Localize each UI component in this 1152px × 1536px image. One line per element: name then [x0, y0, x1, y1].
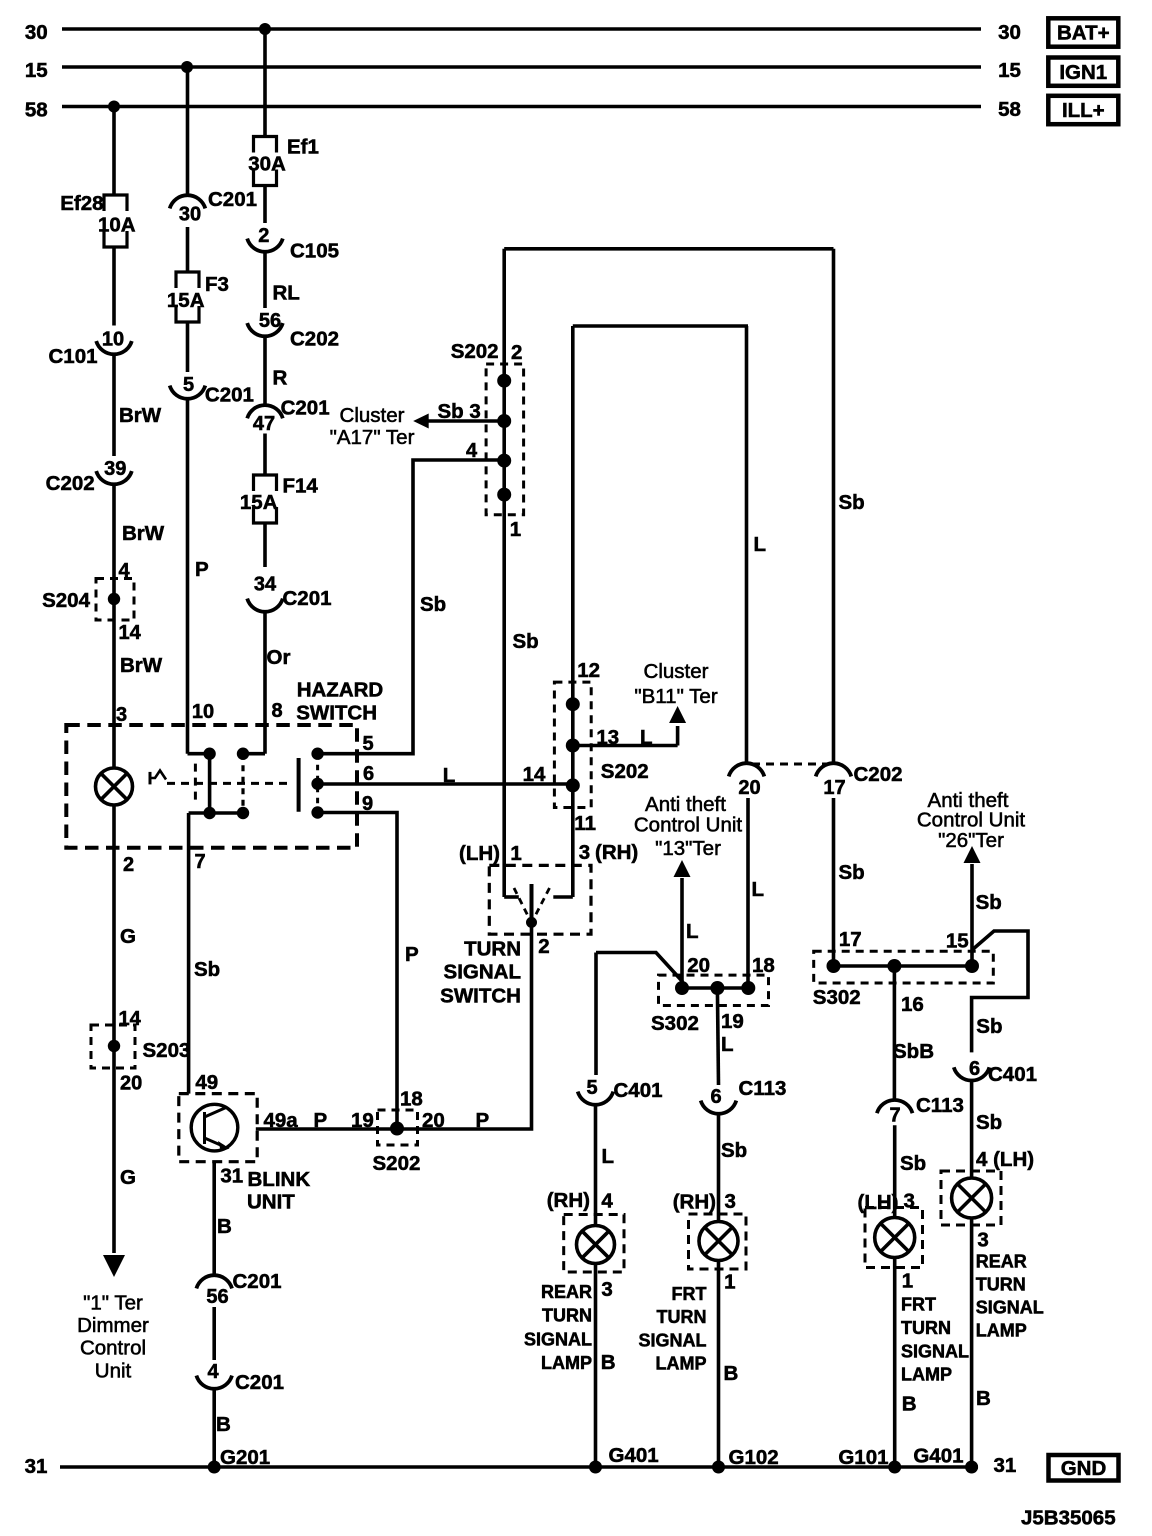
svg-text:BAT+: BAT+ — [1057, 22, 1110, 45]
svg-text:LAMP: LAMP — [541, 1353, 592, 1373]
svg-text:REAR: REAR — [541, 1282, 592, 1302]
svg-text:Sb: Sb — [976, 1111, 1002, 1134]
svg-text:G201: G201 — [220, 1446, 270, 1469]
svg-text:2: 2 — [258, 225, 269, 247]
svg-text:ILL+: ILL+ — [1062, 99, 1105, 122]
svg-text:Sb: Sb — [976, 1015, 1002, 1038]
svg-text:Or: Or — [267, 646, 291, 669]
svg-text:3: 3 — [601, 1278, 612, 1301]
svg-text:15A: 15A — [240, 491, 278, 514]
svg-text:SIGNAL: SIGNAL — [976, 1298, 1044, 1318]
svg-text:Unit: Unit — [95, 1359, 132, 1382]
svg-text:C113: C113 — [916, 1094, 964, 1117]
svg-text:FRT: FRT — [901, 1295, 936, 1315]
svg-text:31: 31 — [25, 1455, 48, 1478]
svg-text:Control Unit: Control Unit — [634, 814, 743, 837]
svg-text:G: G — [120, 1166, 136, 1189]
svg-text:Cluster: Cluster — [644, 660, 709, 683]
svg-text:B: B — [902, 1393, 917, 1416]
svg-text:Sb: Sb — [438, 400, 464, 423]
svg-text:IGN1: IGN1 — [1059, 61, 1107, 84]
svg-text:(LH): (LH) — [459, 842, 500, 865]
svg-text:GND: GND — [1061, 1457, 1107, 1480]
svg-text:18: 18 — [400, 1088, 423, 1111]
svg-text:Sb: Sb — [513, 630, 539, 653]
svg-text:1: 1 — [510, 842, 521, 865]
svg-text:Sb: Sb — [194, 958, 220, 981]
svg-text:C201: C201 — [281, 397, 330, 420]
svg-text:1: 1 — [902, 1270, 913, 1293]
svg-text:G401: G401 — [609, 1444, 659, 1467]
svg-text:Sb: Sb — [721, 1139, 747, 1162]
svg-text:31: 31 — [994, 1454, 1017, 1477]
svg-text:TURN: TURN — [901, 1318, 951, 1338]
svg-text:L: L — [602, 1145, 615, 1168]
svg-text:"A17" Ter: "A17" Ter — [330, 426, 415, 449]
svg-text:C202: C202 — [854, 763, 903, 786]
svg-text:58: 58 — [998, 98, 1021, 121]
svg-text:HAZARD: HAZARD — [297, 679, 384, 702]
svg-text:(RH): (RH) — [595, 841, 638, 864]
svg-text:Sb: Sb — [976, 891, 1002, 914]
svg-text:J5B35065: J5B35065 — [1021, 1507, 1116, 1530]
svg-text:9: 9 — [362, 793, 373, 815]
svg-text:"B11" Ter: "B11" Ter — [634, 685, 717, 708]
svg-text:10: 10 — [192, 701, 214, 723]
svg-text:14: 14 — [119, 1008, 142, 1030]
svg-text:2: 2 — [123, 854, 134, 876]
svg-text:C201: C201 — [208, 188, 257, 211]
svg-text:F14: F14 — [283, 475, 319, 498]
svg-text:30: 30 — [998, 21, 1021, 44]
svg-text:FRT: FRT — [672, 1284, 707, 1304]
svg-text:SWITCH: SWITCH — [440, 985, 521, 1008]
svg-text:G: G — [120, 925, 136, 948]
svg-text:S203: S203 — [143, 1039, 191, 1062]
svg-text:LAMP: LAMP — [901, 1365, 952, 1385]
svg-text:Dimmer: Dimmer — [77, 1314, 149, 1337]
svg-text:Sb: Sb — [900, 1152, 926, 1175]
svg-text:F3: F3 — [205, 273, 229, 296]
svg-text:4: 4 — [466, 440, 478, 462]
svg-text:G401: G401 — [913, 1445, 963, 1468]
svg-text:6: 6 — [969, 1058, 980, 1080]
svg-text:C201: C201 — [233, 1270, 282, 1293]
svg-text:L: L — [686, 920, 699, 943]
svg-text:L: L — [443, 764, 456, 787]
svg-text:4 (LH): 4 (LH) — [976, 1148, 1034, 1171]
svg-text:Ef1: Ef1 — [287, 136, 319, 159]
svg-text:1: 1 — [510, 518, 521, 541]
svg-text:(RH): (RH) — [673, 1191, 716, 1214]
svg-text:20: 20 — [687, 954, 710, 977]
svg-text:5: 5 — [362, 733, 373, 755]
svg-text:SWITCH: SWITCH — [296, 702, 377, 725]
svg-text:14: 14 — [119, 622, 142, 644]
svg-text:10: 10 — [102, 329, 124, 351]
svg-text:P: P — [314, 1109, 328, 1132]
svg-text:"1" Ter: "1" Ter — [83, 1292, 143, 1315]
svg-text:15: 15 — [25, 59, 48, 82]
svg-text:TURN: TURN — [464, 938, 521, 961]
svg-text:39: 39 — [104, 458, 126, 480]
svg-text:B: B — [217, 1215, 232, 1238]
svg-text:C401: C401 — [988, 1063, 1037, 1086]
svg-text:C101: C101 — [48, 345, 97, 368]
svg-text:58: 58 — [25, 99, 48, 122]
svg-text:REAR: REAR — [976, 1252, 1027, 1272]
svg-text:B: B — [724, 1362, 739, 1385]
svg-text:17: 17 — [823, 777, 845, 799]
svg-text:P: P — [195, 558, 209, 581]
svg-text:P: P — [476, 1109, 490, 1132]
svg-text:20: 20 — [120, 1073, 142, 1095]
svg-text:BLINK: BLINK — [248, 1168, 311, 1191]
svg-text:17: 17 — [839, 928, 862, 951]
svg-text:TURN: TURN — [542, 1306, 592, 1326]
svg-text:BrW: BrW — [122, 522, 165, 545]
svg-text:1: 1 — [724, 1271, 735, 1294]
svg-text:3: 3 — [904, 1190, 915, 1213]
svg-text:15A: 15A — [167, 289, 205, 312]
svg-text:P: P — [405, 943, 419, 966]
svg-text:47: 47 — [253, 413, 275, 435]
svg-text:C105: C105 — [290, 240, 339, 263]
svg-text:BrW: BrW — [120, 654, 163, 677]
svg-text:C201: C201 — [235, 1371, 284, 1394]
svg-text:15: 15 — [998, 59, 1021, 82]
svg-text:C201: C201 — [205, 384, 254, 407]
svg-text:8: 8 — [271, 700, 282, 722]
svg-text:6: 6 — [710, 1086, 721, 1108]
svg-text:Ef28: Ef28 — [60, 192, 103, 215]
svg-text:20: 20 — [738, 777, 760, 799]
svg-text:LAMP: LAMP — [976, 1321, 1027, 1341]
svg-text:TURN: TURN — [976, 1275, 1026, 1295]
svg-text:C201: C201 — [283, 587, 332, 610]
svg-text:Cluster: Cluster — [340, 404, 405, 427]
svg-text:15: 15 — [946, 930, 969, 953]
svg-text:SIGNAL: SIGNAL — [901, 1341, 969, 1361]
svg-text:C202: C202 — [46, 472, 95, 495]
svg-text:BrW: BrW — [119, 404, 162, 427]
svg-text:(RH): (RH) — [547, 1189, 590, 1212]
svg-text:56: 56 — [206, 1286, 228, 1308]
svg-text:S204: S204 — [42, 589, 90, 612]
svg-text:L: L — [754, 533, 767, 556]
svg-text:B: B — [216, 1413, 231, 1436]
svg-text:B: B — [601, 1351, 616, 1374]
svg-text:11: 11 — [574, 812, 596, 835]
svg-text:R: R — [273, 367, 288, 390]
svg-text:12: 12 — [577, 659, 600, 682]
svg-text:S302: S302 — [813, 986, 861, 1009]
svg-text:13: 13 — [596, 726, 619, 749]
svg-text:3: 3 — [977, 1229, 988, 1252]
svg-text:RL: RL — [273, 282, 300, 305]
svg-text:SbB: SbB — [893, 1040, 934, 1063]
svg-text:S202: S202 — [601, 760, 649, 783]
svg-text:B: B — [976, 1387, 991, 1410]
svg-text:3: 3 — [116, 704, 127, 726]
svg-text:2: 2 — [538, 935, 549, 958]
svg-text:31: 31 — [220, 1165, 243, 1188]
svg-text:4: 4 — [601, 1190, 613, 1213]
svg-text:30A: 30A — [248, 153, 286, 176]
svg-text:S202: S202 — [373, 1152, 421, 1175]
svg-text:30: 30 — [179, 204, 201, 226]
svg-text:18: 18 — [752, 954, 775, 977]
svg-text:49a: 49a — [264, 1109, 299, 1132]
svg-text:19: 19 — [721, 1010, 744, 1033]
svg-text:G102: G102 — [729, 1446, 779, 1469]
svg-text:UNIT: UNIT — [247, 1191, 295, 1214]
svg-text:16: 16 — [901, 993, 924, 1016]
svg-text:Sb: Sb — [839, 491, 865, 514]
svg-text:L: L — [640, 726, 653, 749]
svg-text:SIGNAL: SIGNAL — [444, 961, 521, 984]
svg-text:4: 4 — [207, 1361, 219, 1383]
svg-text:34: 34 — [254, 574, 277, 596]
svg-text:49: 49 — [195, 1071, 218, 1094]
svg-text:(LH): (LH) — [858, 1191, 899, 1214]
svg-text:19: 19 — [351, 1109, 374, 1132]
svg-text:Control: Control — [80, 1337, 146, 1360]
svg-text:G101: G101 — [838, 1446, 888, 1469]
svg-text:2: 2 — [511, 341, 522, 364]
svg-text:Sb: Sb — [420, 593, 446, 616]
svg-text:14: 14 — [523, 763, 546, 786]
svg-text:3: 3 — [579, 841, 590, 864]
svg-text:5: 5 — [586, 1077, 597, 1099]
svg-text:"26"Ter: "26"Ter — [938, 829, 1004, 852]
svg-text:7: 7 — [194, 851, 205, 873]
svg-text:C202: C202 — [290, 328, 339, 351]
svg-text:SIGNAL: SIGNAL — [524, 1329, 592, 1349]
svg-text:S302: S302 — [651, 1012, 699, 1035]
svg-text:S202: S202 — [451, 340, 499, 363]
svg-text:TURN: TURN — [657, 1307, 707, 1327]
svg-text:L: L — [752, 878, 765, 901]
svg-text:20: 20 — [422, 1109, 445, 1132]
svg-text:5: 5 — [183, 374, 194, 396]
svg-text:7: 7 — [889, 1105, 900, 1127]
svg-text:C113: C113 — [739, 1077, 787, 1100]
svg-text:3: 3 — [469, 400, 480, 423]
svg-text:3: 3 — [725, 1190, 736, 1213]
svg-text:30: 30 — [25, 21, 48, 44]
svg-text:C401: C401 — [614, 1079, 663, 1102]
svg-text:Sb: Sb — [839, 861, 865, 884]
svg-text:LAMP: LAMP — [656, 1354, 707, 1374]
svg-text:10A: 10A — [98, 214, 136, 237]
svg-text:"13"Ter: "13"Ter — [655, 837, 721, 860]
svg-text:L: L — [721, 1033, 734, 1056]
svg-text:6: 6 — [363, 763, 374, 785]
svg-text:SIGNAL: SIGNAL — [638, 1330, 706, 1350]
